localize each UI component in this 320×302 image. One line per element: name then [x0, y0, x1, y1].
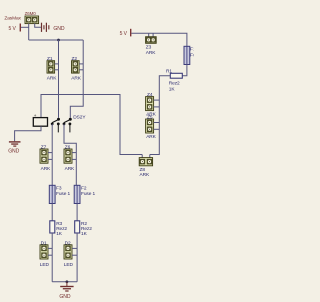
- svg-text:ARK: ARK: [65, 166, 75, 172]
- LED D2: [64, 240, 77, 268]
- resistor R2: [75, 221, 93, 237]
- connector Z7: [40, 145, 52, 173]
- svg-text:ZasMax: ZasMax: [4, 15, 21, 21]
- wire F1 to R1: [182, 65, 187, 76]
- svg-text:ARK: ARK: [146, 50, 156, 56]
- power ground GND (bottom, bar style): [59, 282, 73, 300]
- power port 5 V (bar) top-right: [120, 29, 149, 37]
- wire bottom rail to GND: [52, 281, 77, 283]
- svg-text:GND: GND: [8, 148, 19, 154]
- svg-text:5 V: 5 V: [9, 26, 17, 32]
- svg-text:ARK: ARK: [47, 76, 57, 82]
- svg-text:Z6M0: Z6M0: [25, 11, 37, 16]
- svg-text:1K: 1K: [56, 231, 63, 237]
- svg-text:Fuse 1: Fuse 1: [56, 191, 70, 197]
- wire F3 to R3: [51, 204, 53, 221]
- connector Z8: [139, 158, 152, 178]
- connector Z4: [146, 92, 160, 117]
- svg-text:Rez2: Rez2: [169, 81, 180, 87]
- svg-text:GND: GND: [53, 26, 64, 32]
- svg-text:LED: LED: [64, 262, 74, 268]
- wire Z1 branch vertical: [58, 40, 60, 118]
- resistor R1: [166, 69, 182, 93]
- wire Z2 branch vertical: [70, 40, 83, 118]
- connector Z6M0 (power input header): [25, 11, 39, 23]
- connector Z1: [47, 56, 59, 81]
- fuse F3: [49, 185, 70, 203]
- svg-text:ARK: ARK: [146, 134, 156, 140]
- connector Z6: [64, 145, 76, 173]
- power port GND (battery style) top-left: [41, 23, 65, 32]
- svg-text:Fuse 1: Fuse 1: [81, 191, 95, 197]
- wire coil bottom to GND: [15, 126, 41, 141]
- svg-text:ARK: ARK: [140, 172, 150, 178]
- junction at GND stem: [66, 280, 69, 283]
- wire contact1 NO throw down to Z7/F3 chain: [51, 124, 53, 185]
- wire pin1 Z6M0 down: [28, 24, 30, 41]
- svg-text:1K: 1K: [81, 231, 88, 237]
- svg-text:F2: F2: [81, 185, 87, 191]
- fuse F1: [184, 46, 204, 64]
- wire F2 to R2: [76, 204, 78, 221]
- svg-text:R2: R2: [81, 221, 87, 227]
- fuse F2: [74, 185, 95, 203]
- svg-text:DS2Y: DS2Y: [73, 114, 86, 120]
- svg-text:GND: GND: [59, 294, 70, 300]
- relay K1 DS2Y coil: [33, 113, 47, 126]
- svg-text:1K: 1K: [169, 86, 176, 92]
- wire 5V to Z3 to F1: [149, 33, 187, 46]
- wire R2 to D2 chain: [76, 233, 78, 282]
- relay contact 2 (pole, blade, throws): [63, 118, 72, 133]
- wire R3 to D1 chain: [51, 233, 53, 282]
- connector Z5: [146, 115, 160, 140]
- wire Z8 left pin stub: [141, 155, 143, 158]
- power port 5 V (bar) top-left: [9, 24, 29, 32]
- svg-text:Z3: Z3: [146, 45, 152, 51]
- relay contact 1 (pole, blade, throws): [51, 118, 60, 133]
- sheet background: [0, 0, 200, 302]
- wire contact2 throw to Z6/F2 chain: [64, 124, 76, 185]
- connector Z2: [71, 56, 83, 81]
- wire main top horizontal: [29, 39, 83, 41]
- svg-text:F3: F3: [56, 185, 62, 191]
- svg-text:ARK: ARK: [71, 76, 81, 82]
- wire R1 to Z4/Z5 vertical: [150, 76, 171, 155]
- connector Z3 pin stubs: [148, 33, 150, 37]
- svg-text:ARK: ARK: [41, 166, 51, 172]
- wire Z8 right pin stub: [149, 155, 151, 158]
- svg-text:LED: LED: [40, 262, 50, 268]
- svg-text:R1: R1: [166, 69, 172, 75]
- connector Z3: [146, 37, 157, 56]
- svg-text:R3: R3: [56, 221, 62, 227]
- LED D1: [40, 240, 52, 268]
- power ground GND (left, bar style): [8, 141, 20, 154]
- resistor R3: [50, 221, 68, 237]
- svg-text:5 V: 5 V: [120, 31, 128, 37]
- wire pin2 Z6M0 to battery: [35, 24, 41, 28]
- wire coil-top to Z8 long horizontal: [41, 95, 142, 155]
- junction at Z1 drop: [57, 39, 60, 42]
